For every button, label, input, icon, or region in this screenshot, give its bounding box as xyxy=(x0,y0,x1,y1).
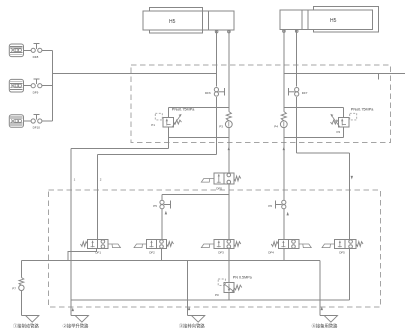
pressure regulator R1 xyxy=(155,113,181,127)
manifold drop to exhaust T3 xyxy=(186,260,188,315)
svg-text:H5: H5 xyxy=(330,18,337,24)
cylinder A1 rod-side chamber xyxy=(209,11,235,30)
svg-text:P5: P5 xyxy=(153,204,157,208)
shutoff valve Q2 xyxy=(31,79,42,88)
flow arrow up x283 xyxy=(283,147,285,151)
label V4 xyxy=(268,251,274,255)
wire y148 left run xyxy=(71,148,168,150)
valve V4 (3/2 way) xyxy=(271,240,311,249)
svg-text:DF7: DF7 xyxy=(302,91,308,95)
shutoff valve S1 xyxy=(214,88,224,97)
junction wire right y107 xyxy=(284,107,344,109)
svg-text:DF0: DF0 xyxy=(216,186,222,190)
label R1 xyxy=(151,123,155,127)
wire G1 to V2 xyxy=(161,209,163,240)
svg-text:DF6: DF6 xyxy=(205,91,211,95)
cylinder A2 label H5 xyxy=(330,18,337,24)
label R3 setting xyxy=(233,275,253,279)
wire R4 down to T1 xyxy=(20,291,22,316)
flow arrow T2 xyxy=(72,308,74,312)
wire V4 out xyxy=(283,249,285,261)
wire x71 drop to exhaust xyxy=(70,149,72,316)
label Q1 xyxy=(33,55,39,59)
regulator R2 output drop xyxy=(343,127,345,137)
wire S1 to junction xyxy=(215,97,217,108)
label Q3 xyxy=(33,126,41,130)
wire Q3 to bus xyxy=(42,120,53,122)
label node 2 xyxy=(100,178,102,182)
flow arrow down x349 xyxy=(351,176,353,180)
valve V1 (3/2 way) xyxy=(81,240,121,249)
label G2 xyxy=(268,204,272,208)
label N1 xyxy=(216,186,222,190)
manifold top edge xyxy=(21,259,320,261)
svg-text:DF2: DF2 xyxy=(149,251,155,255)
pressure regulator R2 xyxy=(330,113,356,127)
supply bus vertical xyxy=(52,50,54,121)
cylinder A1 jacket xyxy=(150,8,203,34)
exhaust T3 xyxy=(187,316,205,323)
svg-text:PN 0.5MPa: PN 0.5MPa xyxy=(233,275,253,279)
cylinder A2 piston xyxy=(302,10,308,30)
svg-text:DF4: DF4 xyxy=(268,251,274,255)
wire x228 middle drop xyxy=(228,128,230,173)
relief valve RL2 xyxy=(280,112,287,128)
relief valve R3 spring xyxy=(234,285,242,290)
shutoff valve G2 xyxy=(276,200,286,209)
dashed enclosure box DB2 (lower valve group) xyxy=(49,190,381,307)
wire x216 down xyxy=(215,108,217,155)
svg-text:PN≤0.75MPa: PN≤0.75MPa xyxy=(172,107,195,111)
wire R4 up xyxy=(20,260,22,277)
relief valve RL1 xyxy=(225,112,232,128)
label V1 xyxy=(95,251,101,255)
air service unit Z2 xyxy=(9,79,23,92)
svg-text:P3: P3 xyxy=(219,125,223,129)
exhaust T1 xyxy=(21,316,39,323)
label V5 xyxy=(339,251,345,255)
label RL2 xyxy=(274,125,278,129)
label G1 xyxy=(153,204,157,208)
wire x97 drop xyxy=(97,155,99,240)
relief valve R4 xyxy=(19,278,24,291)
label T2 xyxy=(63,323,89,330)
wire Q1 to bus xyxy=(42,49,53,51)
valve V3 (3/2 way) xyxy=(201,240,241,249)
relief valve R3 body xyxy=(224,283,235,293)
wire V1 out xyxy=(68,249,96,261)
regulator R1 output drop xyxy=(167,127,169,149)
valve V5 (3/2 way) xyxy=(322,240,363,249)
shutoff valve S2 xyxy=(288,88,298,97)
svg-text:DF5: DF5 xyxy=(339,251,345,255)
exhaust T2 xyxy=(71,316,89,323)
label node 1 xyxy=(74,178,76,182)
cylinder A1 piston xyxy=(203,11,209,30)
wire Q2 to bus xyxy=(42,85,53,87)
air service unit Z1 xyxy=(9,44,23,57)
wire x296 down to y153 xyxy=(296,97,298,153)
svg-text:DF8: DF8 xyxy=(33,55,39,59)
cylinder A1 port P1 boss xyxy=(215,30,218,33)
cylinder A2 port P2 boss xyxy=(295,30,298,34)
svg-text:PN≤0.75MPa: PN≤0.75MPa xyxy=(351,107,374,111)
wire x162 to G xyxy=(161,194,163,200)
valve V2 (3/2 way) xyxy=(134,240,174,249)
label S1 xyxy=(205,91,211,95)
svg-text:P0: P0 xyxy=(215,293,219,297)
cylinder A1 label H5 xyxy=(169,19,176,25)
wire V5 out xyxy=(349,249,351,300)
wire V2 out xyxy=(161,249,163,261)
flow arrow up x228 xyxy=(228,147,230,151)
supply branch stub xyxy=(378,73,380,79)
wire Z3 to valve xyxy=(24,120,32,122)
valve N1 (3/2 way) xyxy=(201,173,241,184)
svg-text:P6: P6 xyxy=(268,204,272,208)
label Q2 xyxy=(33,90,39,94)
wire cyl A2 port1 down xyxy=(283,33,285,112)
svg-text:①接制动管路: ①接制动管路 xyxy=(13,323,39,330)
label S2 xyxy=(302,91,308,95)
svg-text:P2: P2 xyxy=(337,130,341,134)
flow arrow up G1 xyxy=(165,211,167,215)
shutoff valve G1 xyxy=(160,200,170,209)
cylinder A1 body xyxy=(143,11,203,30)
cylinder A1 port P2 boss xyxy=(228,30,231,33)
svg-text:④接备用管路: ④接备用管路 xyxy=(312,323,338,330)
wire y154 left run xyxy=(98,154,217,156)
label V3 xyxy=(218,251,224,255)
svg-text:DF3: DF3 xyxy=(218,251,224,255)
svg-text:P4: P4 xyxy=(274,125,278,129)
wire cyl A1 port1 down xyxy=(215,33,217,86)
svg-text:H5: H5 xyxy=(169,19,176,25)
svg-text:P1: P1 xyxy=(151,123,155,127)
svg-text:DF10: DF10 xyxy=(33,126,41,130)
wire cyl A1 port2 down xyxy=(228,33,230,111)
svg-text:DF9: DF9 xyxy=(33,90,39,94)
flow arrow T4 xyxy=(321,307,323,311)
wire G2 to V4 xyxy=(283,209,285,240)
regulator R1 stub xyxy=(167,108,169,118)
exhaust T4 xyxy=(320,316,338,323)
cylinder A2 jacket xyxy=(314,7,379,33)
label R1 setting xyxy=(172,107,195,111)
svg-text:P7: P7 xyxy=(12,286,16,290)
cylinder A2 port P1 boss xyxy=(283,30,286,34)
dashed enclosure box DB1 (upper valve group) xyxy=(131,65,391,143)
label R2 setting xyxy=(351,107,374,111)
wire Z1 to valve xyxy=(24,49,32,51)
label V2 xyxy=(149,251,155,255)
junction wire left y107 xyxy=(168,107,229,109)
cylinder A2 rod-side chamber xyxy=(280,10,302,30)
cylinder A2 body xyxy=(308,10,372,30)
svg-text:③接转向管路: ③接转向管路 xyxy=(179,323,205,330)
wire y137 right xyxy=(284,136,344,138)
svg-text:②接举升管路: ②接举升管路 xyxy=(63,323,89,330)
wire cyl A2 port2 down xyxy=(296,33,298,87)
wire y137 left xyxy=(168,136,229,138)
wire x349 drop xyxy=(349,153,351,240)
wire S2 to junction xyxy=(296,97,298,108)
wire R3 out xyxy=(228,293,230,300)
shutoff valve Q3 xyxy=(31,114,42,123)
label T1 xyxy=(13,323,39,330)
wire N1 out down xyxy=(228,184,230,240)
manifold bottom edge xyxy=(71,299,350,301)
label R3 xyxy=(215,293,219,297)
label RL1 xyxy=(219,125,223,129)
main supply wire right xyxy=(284,72,405,74)
label R4 xyxy=(12,286,16,290)
label R2 xyxy=(337,130,341,134)
shutoff valve Q1 xyxy=(31,44,42,53)
tee wire y194 xyxy=(162,193,229,195)
flow arrow T3 xyxy=(188,307,190,311)
regulator R2 stub xyxy=(343,108,345,118)
label T3 xyxy=(179,323,205,330)
label T4 xyxy=(312,323,338,330)
wire x283 middle drop xyxy=(283,128,285,200)
main supply wire left xyxy=(53,72,217,74)
relief valve R3 pilot (dashed) xyxy=(218,279,225,285)
flow arrow up G2 xyxy=(287,212,289,216)
manifold right step edge xyxy=(319,260,321,315)
wire V3 out xyxy=(228,249,230,283)
wire y153 right run xyxy=(297,152,350,154)
air service unit Z3 xyxy=(9,115,23,128)
wire Z2 to valve xyxy=(24,85,32,87)
